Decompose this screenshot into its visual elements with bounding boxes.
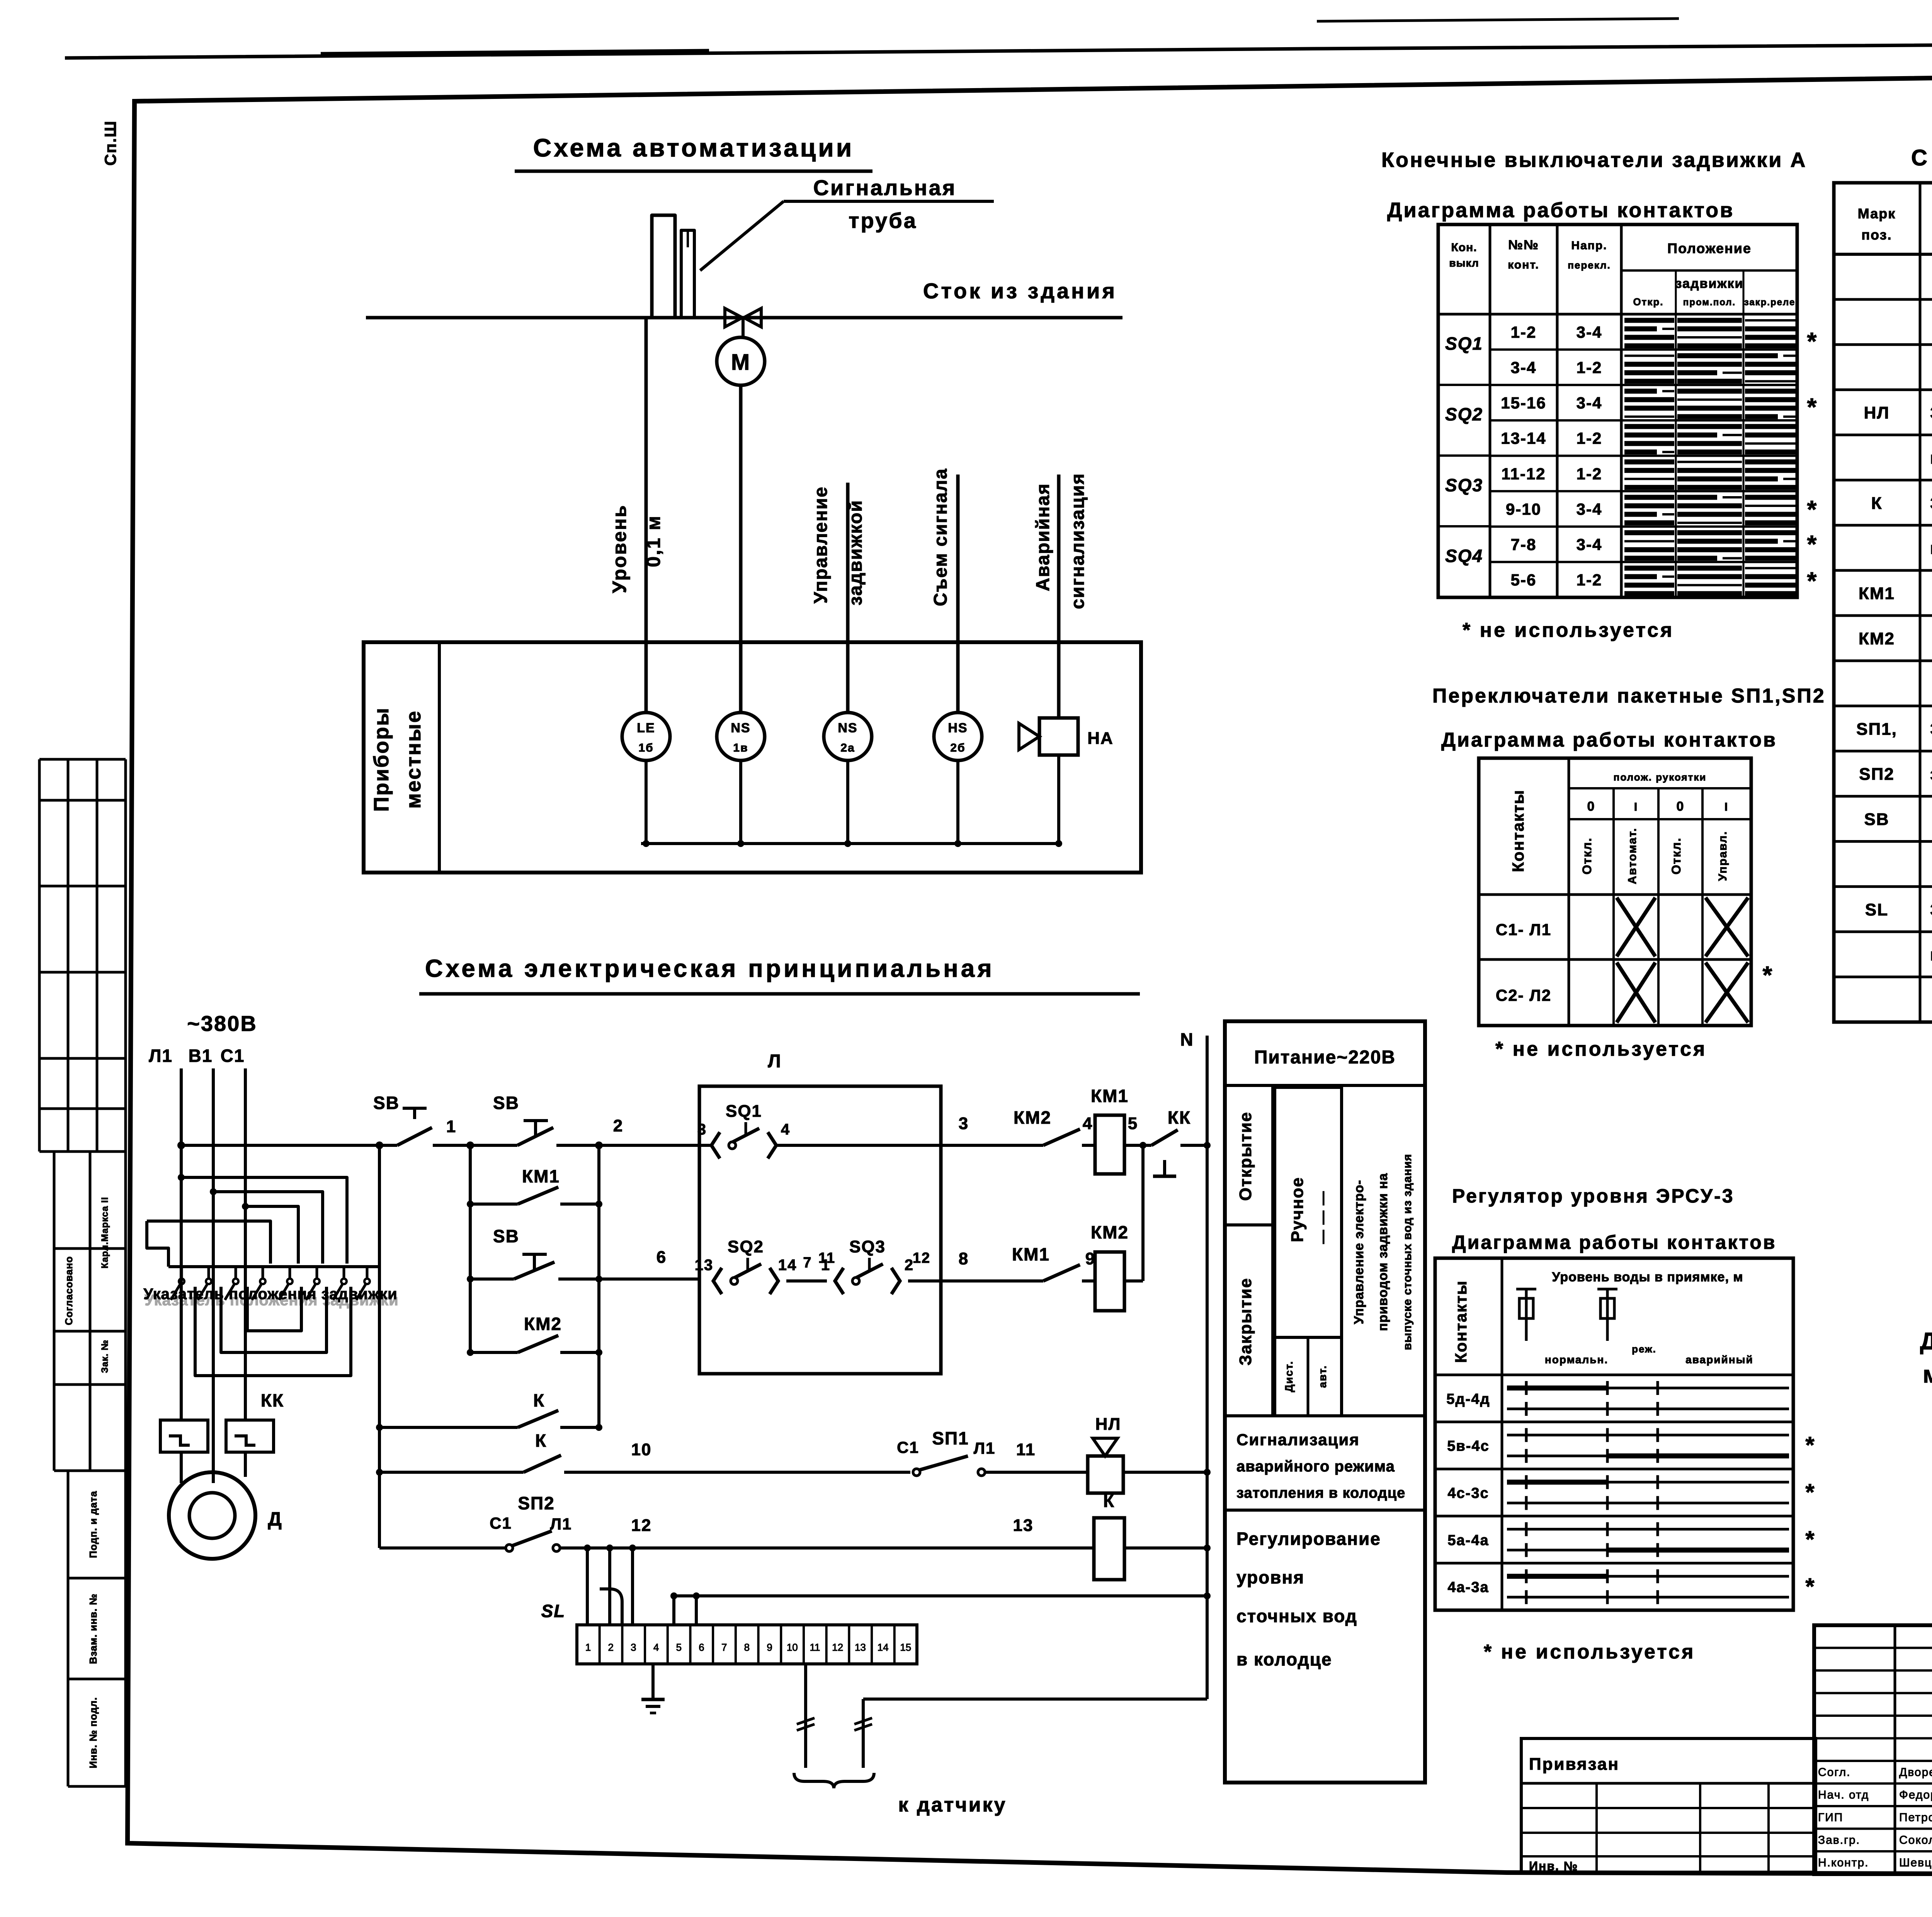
wire: phase L1 xyxy=(180,1068,183,1420)
svg-text:КК: КК xyxy=(1168,1107,1191,1128)
svg-text:9-10: 9-10 xyxy=(1506,500,1541,518)
svg-text:Зав.гр.: Зав.гр. xyxy=(1818,1834,1860,1847)
svg-text:Контакты: Контакты xyxy=(1509,789,1527,872)
svg-text:Соколова: Соколова xyxy=(1899,1834,1932,1847)
svg-text:SВ: SВ xyxy=(493,1226,519,1246)
svg-text:7: 7 xyxy=(803,1255,812,1271)
svg-text:HS: HS xyxy=(948,721,968,735)
svg-text:Откл.: Откл. xyxy=(1669,837,1683,874)
svg-text:NS: NS xyxy=(838,721,857,735)
svg-text:полож. рукоятки: полож. рукоятки xyxy=(1614,771,1707,783)
svg-text:местные: местные xyxy=(402,710,425,809)
svg-text:13: 13 xyxy=(855,1641,866,1653)
svg-text:15-16: 15-16 xyxy=(1501,394,1546,412)
component: contact KM1 aux xyxy=(467,1166,602,1208)
node: note not used 2 xyxy=(1495,1038,1707,1060)
component: alarm horn HA xyxy=(1019,718,1114,755)
svg-text:НЛ: НЛ xyxy=(1095,1415,1121,1434)
wire: signal line emergency alarm xyxy=(1057,475,1061,718)
svg-text:Диаграмма работы контактов: Диаграмма работы контактов xyxy=(1441,729,1777,751)
svg-text:N: N xyxy=(1180,1029,1194,1050)
svg-text:3: 3 xyxy=(631,1641,636,1653)
wire: node 8 line xyxy=(941,1249,1043,1281)
svg-text:8: 8 xyxy=(744,1641,750,1653)
svg-text:Автомат.: Автомат. xyxy=(1626,828,1639,885)
svg-text:Завод„Теплоприбор": Завод„Теплоприбор" xyxy=(1930,900,1932,919)
node: position indicator wiring loops xyxy=(143,1174,398,1376)
svg-text:1-2: 1-2 xyxy=(1577,358,1602,376)
svg-text:Шевцова: Шевцова xyxy=(1899,1856,1932,1869)
component: instrument circle 3 xyxy=(824,713,872,760)
svg-text:Н.контр.: Н.контр. xyxy=(1818,1856,1869,1869)
svg-text:9: 9 xyxy=(767,1641,772,1653)
svg-text:*: * xyxy=(1807,530,1818,558)
svg-text:1-2: 1-2 xyxy=(1577,429,1602,447)
svg-text:Указатель положения задвижки: Указатель положения задвижки xyxy=(145,1292,398,1309)
svg-text:*: * xyxy=(1763,961,1773,989)
component: thermal contact KK xyxy=(1151,1107,1207,1176)
svg-text:В1: В1 xyxy=(189,1046,213,1066)
svg-text:аварийный: аварийный xyxy=(1685,1354,1753,1366)
node: specification table xyxy=(1834,183,1932,1022)
svg-text:НЛ: НЛ xyxy=(1864,403,1890,422)
svg-text:авт.: авт. xyxy=(1316,1365,1328,1388)
wire: bus V2 x1217 xyxy=(466,1141,474,1352)
svg-text:I: I xyxy=(1634,801,1638,813)
wire: top scan edge line xyxy=(65,19,1932,58)
svg-text:С1: С1 xyxy=(490,1514,512,1532)
node: limit switch block frame xyxy=(699,1051,941,1374)
svg-text:в колодце: в колодце xyxy=(1236,1649,1332,1669)
svg-text:ГИП: ГИП xyxy=(1818,1811,1843,1824)
node: phase labels L1 B1 C1 xyxy=(149,1046,245,1066)
svg-text:15: 15 xyxy=(900,1641,911,1653)
node: SQ contacts diagram table xyxy=(1438,225,1817,597)
node: title Переключатели пакетные xyxy=(1432,685,1826,751)
svg-text:SВ: SВ xyxy=(373,1093,400,1113)
wire: box row2 internal xyxy=(786,1250,941,1281)
svg-text:поз.: поз. xyxy=(1861,227,1892,243)
svg-text:Сигнальная: Сигнальная xyxy=(813,175,957,200)
svg-text:С2- Л2: С2- Л2 xyxy=(1496,986,1551,1004)
svg-text:КМ2: КМ2 xyxy=(524,1314,562,1334)
svg-text:1: 1 xyxy=(585,1641,591,1653)
svg-text:Диаграмма работы контактов: Диаграмма работы контактов xyxy=(1452,1232,1777,1253)
svg-text:SQ4: SQ4 xyxy=(1445,546,1483,566)
svg-text:SП2: SП2 xyxy=(1859,765,1894,784)
svg-text:11: 11 xyxy=(810,1641,820,1653)
wire: drain pipe Сток из здания xyxy=(366,279,1122,318)
component: coil K xyxy=(1094,1491,1207,1580)
svg-text:Откл.: Откл. xyxy=(1580,837,1594,874)
svg-text:3: 3 xyxy=(697,1121,707,1138)
node: note not used 1 xyxy=(1463,619,1674,641)
svg-text:г. Фрунзе: г. Фрунзе xyxy=(1930,539,1932,558)
svg-text:14: 14 xyxy=(778,1257,797,1274)
svg-text:6: 6 xyxy=(656,1248,667,1267)
wire: sensor leads k datchiku xyxy=(794,1664,1007,1816)
svg-text:Закрытие: Закрытие xyxy=(1236,1277,1255,1366)
wire: node 3 line xyxy=(941,1114,1043,1145)
svg-text:КМ1: КМ1 xyxy=(1012,1244,1050,1264)
svg-text:8: 8 xyxy=(959,1249,969,1268)
svg-text:Приборы: Приборы xyxy=(370,707,393,811)
svg-text:КМ2: КМ2 xyxy=(1091,1222,1129,1242)
svg-text:Регулятор уровня ЭРСУ-3: Регулятор уровня ЭРСУ-3 xyxy=(1452,1185,1735,1207)
node: note not used 3 xyxy=(1484,1641,1695,1663)
node: ERSU-3 contacts table xyxy=(1435,1258,1815,1610)
svg-text:* не используется: * не используется xyxy=(1463,619,1674,641)
svg-text:Управление: Управление xyxy=(811,486,831,604)
component: selector SP2 xyxy=(379,1493,1094,1551)
svg-text:аварийного режима: аварийного режима xyxy=(1236,1458,1395,1475)
svg-text:Сп.Ш: Сп.Ш xyxy=(101,120,119,166)
node: main title block xyxy=(1814,1625,1932,1874)
svg-text:уровня: уровня xyxy=(1236,1567,1304,1587)
svg-text:SП1: SП1 xyxy=(932,1428,969,1448)
node: right legend column xyxy=(1225,1021,1425,1783)
svg-text:Схема автоматизации: Схема автоматизации xyxy=(533,133,854,162)
component: instrument circle 4 xyxy=(934,713,982,760)
svg-text:Уровень воды в приямке, м: Уровень воды в приямке, м xyxy=(1552,1270,1743,1284)
svg-text:Переключатели пакетные SП1,SП2: Переключатели пакетные SП1,SП2 xyxy=(1432,685,1826,707)
wire: instrument bottom bus xyxy=(641,755,1062,847)
wire: signal line alarm pickup xyxy=(956,475,960,713)
svg-text:КМ1: КМ1 xyxy=(522,1166,560,1186)
wire: signal line motor control xyxy=(739,385,743,713)
svg-text:SВ: SВ xyxy=(493,1093,519,1113)
node: installation note xyxy=(1920,1328,1932,1388)
svg-text:Д: Д xyxy=(268,1508,282,1530)
svg-text:4: 4 xyxy=(653,1641,659,1653)
component: contact KM2 aux xyxy=(467,1314,602,1356)
svg-text:Регулирование: Регулирование xyxy=(1236,1529,1381,1549)
svg-text:г. Рязань: г. Рязань xyxy=(1930,946,1932,964)
node: title Спецификация xyxy=(1911,145,1932,170)
svg-text:труба: труба xyxy=(849,208,917,233)
svg-text:SQ2: SQ2 xyxy=(1445,404,1483,424)
svg-text:Уровень: Уровень xyxy=(609,504,630,593)
svg-text:3-4: 3-4 xyxy=(1577,500,1602,518)
svg-text:11-12: 11-12 xyxy=(1501,464,1546,483)
svg-text:Карл.Маркса II: Карл.Маркса II xyxy=(100,1197,110,1268)
svg-text:11: 11 xyxy=(1016,1440,1036,1459)
svg-text:3-4: 3-4 xyxy=(1511,358,1537,376)
svg-text:КМ1: КМ1 xyxy=(1091,1086,1129,1106)
svg-text:Ручное: Ручное xyxy=(1288,1177,1307,1242)
svg-text:Завод им. Ленина: Завод им. Ленина xyxy=(1930,494,1932,513)
svg-text:КМ2: КМ2 xyxy=(1014,1107,1051,1128)
node: supply label ~380V xyxy=(187,1011,257,1036)
svg-text:Электротехнический: Электротехнический xyxy=(1930,720,1932,738)
svg-text:5: 5 xyxy=(676,1641,682,1653)
component: thermal heater KK phase C1 xyxy=(226,1420,274,1477)
svg-text:выкл: выкл xyxy=(1449,257,1479,269)
svg-text:4с-3с: 4с-3с xyxy=(1447,1485,1489,1502)
svg-text:LE: LE xyxy=(637,721,655,735)
svg-text:2: 2 xyxy=(613,1116,623,1135)
svg-text:Зак. №: Зак. № xyxy=(100,1340,110,1373)
svg-text:2а: 2а xyxy=(840,742,855,754)
svg-text:Управление электро-: Управление электро- xyxy=(1352,1180,1366,1324)
component: motor M of valve xyxy=(717,337,765,385)
svg-text:С1: С1 xyxy=(897,1438,919,1456)
component: valve on drain pipe xyxy=(725,308,761,337)
svg-text:Аварийная: Аварийная xyxy=(1033,483,1053,591)
svg-text:4: 4 xyxy=(1083,1114,1093,1133)
component: selector SP1 xyxy=(897,1428,1088,1476)
component: limit switch SQ2 xyxy=(695,1237,797,1294)
component: open button SB2 xyxy=(493,1093,623,1145)
svg-text:SП1,: SП1, xyxy=(1856,720,1897,738)
wire: phase B1 xyxy=(212,1068,215,1483)
svg-text:7-8: 7-8 xyxy=(1511,536,1537,554)
svg-text:Сток из здания: Сток из здания xyxy=(923,279,1117,303)
svg-text:Контакты: Контакты xyxy=(1452,1280,1470,1363)
component: contact K aux row7 xyxy=(379,1390,602,1431)
component: coil KM2 xyxy=(1091,1222,1129,1311)
svg-text:монтаже на 0,25 м.: монтаже на 0,25 м. xyxy=(1923,1361,1932,1388)
svg-text:Марк: Марк xyxy=(1858,206,1896,221)
svg-text:5: 5 xyxy=(1128,1114,1138,1133)
svg-text:SQ3: SQ3 xyxy=(849,1237,886,1256)
svg-text:2: 2 xyxy=(608,1641,613,1653)
svg-text:7: 7 xyxy=(721,1641,727,1653)
component: signal stand pipe xyxy=(652,215,694,318)
wire: node 5 xyxy=(1124,1114,1151,1145)
svg-text:сточных вод: сточных вод xyxy=(1236,1606,1357,1626)
svg-text:Конечные выключатели задвижки: Конечные выключатели задвижки А xyxy=(1381,148,1807,172)
svg-text:SL: SL xyxy=(1865,900,1888,919)
node: rotated wire labels xyxy=(609,468,1088,609)
svg-text:КК: КК xyxy=(261,1390,284,1410)
svg-text:1б: 1б xyxy=(638,742,653,754)
ground at strip xyxy=(641,1664,665,1713)
wire: strip common to N xyxy=(670,1592,1207,1625)
wire: strip feeds from row 12 xyxy=(584,1544,636,1625)
svg-text:Дист.: Дист. xyxy=(1283,1361,1295,1392)
node: local instruments box Приборы местные xyxy=(364,642,1141,873)
svg-text:*: * xyxy=(1807,495,1818,523)
svg-text:Согласовано: Согласовано xyxy=(63,1256,75,1325)
svg-text:6: 6 xyxy=(699,1641,704,1653)
wire: signal line valve control xyxy=(846,483,850,713)
svg-text:2б: 2б xyxy=(950,742,965,754)
svg-text:Завод„Электродви-: Завод„Электродви- xyxy=(1930,403,1932,422)
wire: phase C1 xyxy=(244,1068,247,1420)
component: terminal strip SL xyxy=(541,1601,917,1664)
component: motor D xyxy=(169,1472,282,1559)
svg-text:Положение: Положение xyxy=(1667,240,1752,256)
wire: control line node 1-2 xyxy=(177,1141,699,1149)
node: title Регулятор уровня ЭРСУ-3 xyxy=(1452,1185,1777,1253)
svg-text:задвижкой: задвижкой xyxy=(845,500,866,606)
svg-text:*: * xyxy=(1805,1526,1815,1552)
node: Cp.III mark xyxy=(101,120,119,166)
svg-text:*: * xyxy=(1805,1479,1815,1505)
svg-text:SQ2: SQ2 xyxy=(728,1237,764,1256)
svg-text:к датчику: к датчику xyxy=(898,1794,1007,1816)
svg-text:Открытие: Открытие xyxy=(1236,1111,1255,1201)
svg-text:12: 12 xyxy=(913,1250,930,1266)
svg-text:задвижки: задвижки xyxy=(1675,276,1744,291)
svg-text:Инв. №: Инв. № xyxy=(1529,1859,1578,1873)
svg-text:Привязан: Привязан xyxy=(1529,1755,1619,1774)
svg-text:SQ1: SQ1 xyxy=(726,1102,762,1121)
svg-text:1: 1 xyxy=(446,1117,456,1136)
svg-text:гатель"г.Могилев: гатель"г.Могилев xyxy=(1930,449,1932,468)
svg-text:К: К xyxy=(533,1390,545,1410)
svg-text:пром.пол.: пром.пол. xyxy=(1683,297,1736,308)
svg-text:Л: Л xyxy=(768,1051,782,1072)
svg-text:5в-4с: 5в-4с xyxy=(1447,1438,1489,1454)
svg-text:0,1 м: 0,1 м xyxy=(643,515,664,567)
svg-text:12: 12 xyxy=(631,1516,652,1535)
component: limit switch SQ1 xyxy=(697,1102,790,1158)
svg-text:I: I xyxy=(1725,801,1728,813)
svg-text:11: 11 xyxy=(818,1250,835,1266)
svg-text:Управл.: Управл. xyxy=(1716,831,1729,881)
node: adaptation stamp Привязан xyxy=(1521,1738,1816,1873)
svg-text:перекл.: перекл. xyxy=(1568,259,1611,271)
component: signal lamp HL xyxy=(1088,1415,1207,1493)
svg-text:С1: С1 xyxy=(221,1046,245,1066)
svg-text:*: * xyxy=(1807,393,1818,421)
svg-text:Откр.: Откр. xyxy=(1633,296,1663,308)
wire: bus V3 x1550 xyxy=(595,1141,603,1427)
svg-text:4а-3а: 4а-3а xyxy=(1447,1579,1489,1596)
svg-text:Кон.: Кон. xyxy=(1451,241,1477,254)
svg-text:13-14: 13-14 xyxy=(1501,429,1546,447)
svg-text:5-6: 5-6 xyxy=(1511,571,1537,589)
svg-text:10: 10 xyxy=(787,1641,798,1653)
svg-text:1в: 1в xyxy=(733,742,748,754)
svg-text:Л1: Л1 xyxy=(550,1515,572,1533)
node: title Конечные выключатели xyxy=(1381,148,1807,222)
svg-text:К: К xyxy=(1871,494,1883,513)
svg-text:выпуске сточных вод из здания: выпуске сточных вод из здания xyxy=(1401,1154,1414,1350)
svg-text:завод г. Ташкент: завод г. Ташкент xyxy=(1930,765,1932,784)
component: contact K alarm xyxy=(379,1431,910,1472)
svg-text:конт.: конт. xyxy=(1508,259,1539,271)
svg-text:SП2: SП2 xyxy=(518,1493,554,1513)
wire: box row1 internal xyxy=(699,1144,941,1147)
wire: KM2 to KK riser xyxy=(1124,1142,1146,1281)
svg-text:*: * xyxy=(1807,327,1818,355)
svg-text:Питание~220В: Питание~220В xyxy=(1254,1047,1396,1068)
svg-text:К: К xyxy=(1103,1491,1115,1511)
svg-text:Федорова: Федорова xyxy=(1899,1789,1932,1801)
svg-text:затопления в колодце: затопления в колодце xyxy=(1236,1485,1405,1501)
svg-text:Сигнализация: Сигнализация xyxy=(1236,1431,1360,1449)
svg-text:1-2: 1-2 xyxy=(1577,464,1602,483)
svg-text:*: * xyxy=(1805,1573,1815,1599)
svg-text:нормальн.: нормальн. xyxy=(1545,1354,1608,1366)
svg-text:Взам. инв. №: Взам. инв. № xyxy=(87,1594,99,1664)
svg-text:1-2: 1-2 xyxy=(1511,323,1537,341)
svg-text:Нач. отд: Нач. отд xyxy=(1818,1789,1869,1801)
svg-text:NS: NS xyxy=(731,721,750,735)
svg-text:10: 10 xyxy=(631,1440,652,1459)
component: limit switch SQ3 xyxy=(821,1237,914,1294)
svg-text:приводом задвижки на: приводом задвижки на xyxy=(1376,1173,1390,1331)
component: contact KM1 interlock xyxy=(1012,1244,1095,1281)
svg-text:SВ: SВ xyxy=(1864,810,1889,829)
svg-text:Напр.: Напр. xyxy=(1571,239,1607,252)
svg-text:3: 3 xyxy=(959,1114,969,1133)
svg-text:Диаграмма работы контактов: Диаграмма работы контактов xyxy=(1387,199,1734,222)
svg-text:* не используется: * не используется xyxy=(1484,1641,1695,1663)
wire: bus V1 x982 xyxy=(376,1141,383,1548)
svg-text:сигнализация: сигнализация xyxy=(1068,473,1088,609)
node: title Схема электрическая принципиальная xyxy=(419,954,1140,994)
svg-text:С1- Л1: С1- Л1 xyxy=(1496,920,1551,939)
svg-text:Схема электрическая принципиал: Схема электрическая принципиальная xyxy=(425,954,995,982)
svg-text:0: 0 xyxy=(1587,799,1595,814)
svg-text:0: 0 xyxy=(1677,799,1685,814)
component: instrument circle 2 xyxy=(717,713,765,760)
component: stop button SB1 xyxy=(373,1093,456,1145)
svg-text:Подп. и дата: Подп. и дата xyxy=(87,1491,99,1558)
wire: signal line level sensor xyxy=(645,318,648,713)
wire: sensor line to N bus xyxy=(863,1698,1207,1701)
component: instrument circle 1 xyxy=(622,713,670,760)
svg-text:Дворецкая: Дворецкая xyxy=(1899,1766,1932,1779)
svg-text:1-2: 1-2 xyxy=(1577,571,1602,589)
svg-text:3-4: 3-4 xyxy=(1577,394,1602,412)
svg-text:SL: SL xyxy=(541,1601,566,1621)
svg-text:4: 4 xyxy=(781,1121,790,1138)
wire: neutral bus N xyxy=(1180,1029,1211,1699)
node: label KK heaters xyxy=(261,1390,284,1410)
svg-text:закр.реле: закр.реле xyxy=(1744,297,1796,308)
svg-text:12: 12 xyxy=(832,1641,843,1653)
svg-text:М: М xyxy=(731,350,750,375)
svg-text:Спецификация элементов задвижк: Спецификация элементов задвижки на водос… xyxy=(1911,145,1932,170)
svg-text:3-4: 3-4 xyxy=(1577,536,1602,554)
node: label Сигнальная труба xyxy=(700,175,994,270)
component: coil KM1 xyxy=(1091,1086,1129,1174)
svg-text:13: 13 xyxy=(1013,1516,1034,1535)
svg-text:НА: НА xyxy=(1087,729,1114,748)
svg-text:5д-4д: 5д-4д xyxy=(1446,1391,1490,1407)
svg-text:№№: №№ xyxy=(1508,238,1539,252)
svg-text:SQ3: SQ3 xyxy=(1445,475,1483,495)
component: close button SB3 xyxy=(467,1226,699,1283)
svg-text:*: * xyxy=(1805,1432,1815,1458)
svg-text:Инв. № подл.: Инв. № подл. xyxy=(87,1697,99,1769)
svg-text:14: 14 xyxy=(878,1641,889,1653)
svg-text:КМ2: КМ2 xyxy=(1859,629,1895,648)
node: left margin stamp grid xyxy=(39,759,126,1786)
component: contact KM2 interlock xyxy=(1014,1107,1095,1145)
svg-text:Съем сигнала: Съем сигнала xyxy=(930,468,951,606)
svg-text:3-4: 3-4 xyxy=(1577,323,1602,341)
svg-text:13: 13 xyxy=(695,1257,714,1274)
node: title Схема автоматизации xyxy=(515,133,872,171)
component: thermal heater KK phase L1 xyxy=(160,1420,208,1483)
svg-text:— — —: — — — xyxy=(1315,1191,1330,1244)
svg-text:5а-4а: 5а-4а xyxy=(1447,1532,1489,1548)
svg-text:К: К xyxy=(535,1431,547,1451)
svg-text:*: * xyxy=(1807,567,1818,595)
svg-text:Л1: Л1 xyxy=(149,1046,173,1066)
svg-text:Согл.: Согл. xyxy=(1818,1766,1850,1779)
svg-text:Датчик прибора ЭРСУ-3 укоротит: Датчик прибора ЭРСУ-3 укоротить при xyxy=(1920,1328,1932,1355)
node: packet switch diagram table xyxy=(1479,758,1773,1026)
svg-text:Петрова: Петрова xyxy=(1899,1811,1932,1824)
svg-text:SQ1: SQ1 xyxy=(1445,333,1483,354)
